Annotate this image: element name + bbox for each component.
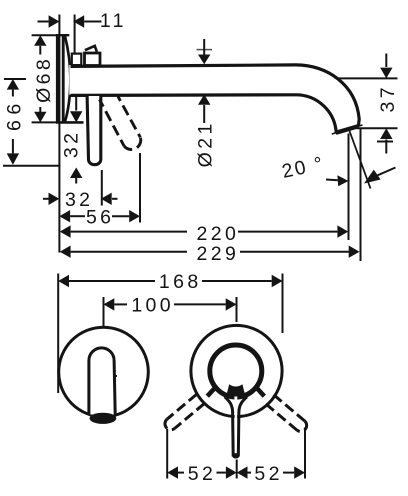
ghost lever right (front, dashed)	[266, 395, 307, 432]
extension line ghost-lever tip	[139, 153, 141, 223]
spout outlet cut	[336, 126, 359, 133]
svg-text:32: 32	[61, 130, 83, 159]
wall plate mid line	[62, 35, 65, 123]
spout tube front: shaft	[89, 360, 115, 414]
dimension 37 (right side)	[338, 54, 398, 154]
ghost lever left (front, dashed)	[165, 394, 205, 430]
svg-text:52: 52	[188, 463, 217, 485]
handle escutcheon circle (front)	[191, 325, 282, 416]
svg-text:20 °: 20 °	[280, 152, 327, 182]
svg-text:220: 220	[197, 223, 240, 245]
svg-text:Ø21: Ø21	[195, 120, 217, 167]
cartridge flap	[85, 46, 97, 52]
dimension 66 (vertical, far left)	[3, 79, 60, 166]
dimension 32 horizontal	[43, 198, 118, 200]
horn left	[207, 386, 216, 396]
svg-text:52: 52	[254, 463, 283, 485]
spout tube front: left edge	[89, 348, 115, 415]
spout escutcheon circle (front)	[59, 327, 149, 417]
dimension 100	[104, 297, 237, 326]
svg-text:Ø68: Ø68	[33, 56, 55, 103]
dimension 32 vertical (lever drop)	[75, 97, 77, 184]
spout bottom edge	[71, 95, 337, 133]
20 degree reference line	[350, 131, 371, 189]
dimension 168	[58, 274, 282, 394]
horn right	[255, 386, 264, 396]
dimension 11	[38, 21, 102, 23]
tube tick	[115, 375, 117, 377]
svg-text:168: 168	[159, 271, 202, 293]
spout top edge	[71, 65, 360, 126]
handle shaft (front)	[226, 384, 246, 397]
dimension Ø68 (vertical, left of plate)	[32, 35, 60, 122]
wall plate back line	[56, 35, 60, 123]
ghost lever dashed (side view)	[100, 97, 141, 150]
wall plate front profile	[65, 36, 71, 122]
cartridge step rect 1	[72, 54, 82, 66]
spout body fill	[69, 65, 359, 133]
extension line wall/plate-back (dims 11/32/56/220/229)	[58, 15, 60, 253]
plate bottom cap	[56, 121, 84, 124]
svg-text:11: 11	[100, 10, 127, 32]
outlet cut extension thin	[332, 125, 363, 134]
svg-text:37: 37	[377, 84, 399, 113]
extension line plate-front (dim 11)	[74, 15, 76, 54]
dimension 229	[71, 251, 349, 253]
plate top cap	[56, 34, 69, 36]
spout outlet ellipse (front)	[90, 413, 117, 424]
20 degree leader arrows	[326, 179, 338, 182]
svg-text:56: 56	[86, 206, 115, 228]
svg-text:100: 100	[131, 294, 174, 316]
dimension 52 + 52	[167, 428, 305, 479]
extension lines spout tip (220/229)	[348, 134, 350, 241]
solid lever (side view)	[87, 96, 101, 165]
handle ring (front)	[210, 345, 262, 397]
cartridge step rect 2	[85, 53, 101, 66]
svg-text:229: 229	[197, 243, 240, 265]
extension line lever-right	[101, 170, 103, 206]
dimension 220	[71, 231, 338, 233]
dimension Ø21 (spout tube)	[197, 39, 213, 123]
dimension 56	[70, 215, 129, 217]
svg-text:66: 66	[4, 98, 26, 131]
